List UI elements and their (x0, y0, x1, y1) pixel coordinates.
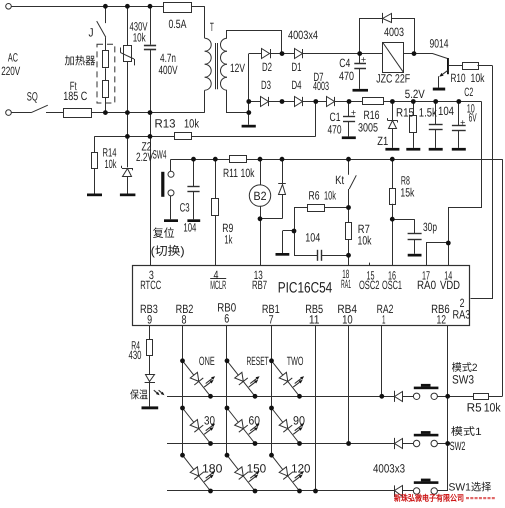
svg-text:6: 6 (224, 311, 229, 325)
svg-text:10k: 10k (484, 401, 502, 415)
svg-text:2.2V: 2.2V (136, 150, 153, 164)
svg-text:10k: 10k (184, 116, 200, 130)
svg-text:104: 104 (305, 230, 320, 244)
svg-text:SW4: SW4 (153, 148, 167, 162)
svg-text:185 C: 185 C (63, 89, 87, 103)
svg-text:12: 12 (437, 313, 447, 327)
svg-text:C2: C2 (464, 85, 473, 99)
svg-text:加热器: 加热器 (65, 55, 96, 68)
svg-text:新珠弘微电子有限公司: 新珠弘微电子有限公司 (394, 493, 464, 503)
svg-text:复位: 复位 (153, 227, 175, 240)
svg-text:R15: R15 (396, 106, 414, 120)
svg-text:R10: R10 (451, 71, 466, 85)
svg-text:SW3: SW3 (452, 372, 474, 386)
svg-text:D1: D1 (292, 60, 302, 74)
svg-text:10k: 10k (324, 189, 337, 203)
svg-text:104: 104 (438, 104, 454, 118)
svg-text:7: 7 (269, 313, 274, 327)
svg-text:8: 8 (182, 313, 187, 327)
svg-text:B2: B2 (254, 189, 267, 203)
svg-text:120: 120 (291, 461, 311, 475)
svg-text:6V: 6V (469, 111, 477, 125)
svg-text:OSC2: OSC2 (359, 278, 380, 292)
svg-text:11: 11 (309, 313, 320, 327)
svg-text:VDD: VDD (440, 278, 460, 292)
svg-text:5.2V: 5.2V (405, 87, 425, 101)
svg-text:Kt: Kt (335, 173, 345, 187)
svg-text:60: 60 (249, 413, 261, 427)
svg-text:12V: 12V (230, 61, 245, 75)
svg-text:9: 9 (147, 313, 152, 327)
svg-text:10k: 10k (133, 31, 147, 45)
svg-text:4003: 4003 (384, 25, 404, 39)
svg-text:D3: D3 (261, 78, 271, 92)
svg-text:J: J (89, 26, 94, 40)
svg-text:SW2: SW2 (450, 439, 466, 453)
svg-text:470: 470 (328, 123, 342, 137)
svg-text:430: 430 (129, 348, 142, 362)
svg-text:30: 30 (204, 413, 215, 427)
svg-text:104: 104 (183, 221, 196, 235)
svg-text:TWO: TWO (287, 354, 304, 368)
svg-text:ONE: ONE (199, 354, 215, 368)
svg-text:RA0: RA0 (417, 278, 436, 292)
svg-text:+: + (460, 118, 465, 128)
svg-text:0.5A: 0.5A (169, 17, 187, 31)
svg-text:R13: R13 (155, 116, 176, 130)
svg-text:OSC1: OSC1 (382, 278, 402, 292)
svg-text:PIC16C54: PIC16C54 (278, 280, 333, 297)
svg-text:1k: 1k (224, 232, 233, 246)
svg-text:模式1: 模式1 (451, 426, 482, 438)
svg-text:RTCC: RTCC (140, 278, 161, 292)
svg-text:10k: 10k (241, 166, 256, 180)
svg-text:RA3: RA3 (453, 308, 471, 322)
svg-text:90: 90 (293, 413, 305, 427)
svg-text:400V: 400V (159, 63, 178, 77)
svg-text:+: + (351, 107, 356, 117)
svg-text:RB7: RB7 (252, 278, 267, 292)
svg-text:保温: 保温 (130, 388, 148, 401)
svg-text:470: 470 (339, 69, 354, 83)
svg-text:MCLR: MCLR (210, 278, 226, 292)
svg-text:Z1: Z1 (377, 134, 388, 148)
svg-text:SQ: SQ (27, 90, 38, 104)
svg-text:4003x3: 4003x3 (373, 461, 405, 475)
svg-text:4003x4: 4003x4 (288, 28, 318, 42)
svg-text:JZC 22F: JZC 22F (376, 72, 410, 86)
svg-text:10k: 10k (358, 234, 373, 248)
svg-text:+: + (361, 55, 366, 65)
svg-text:15k: 15k (400, 186, 415, 200)
svg-text:150: 150 (247, 461, 267, 475)
svg-text:10: 10 (342, 313, 353, 327)
svg-text:180: 180 (202, 461, 223, 475)
svg-text:D4: D4 (292, 78, 302, 92)
svg-text:RA1: RA1 (341, 277, 351, 291)
svg-text:3005: 3005 (358, 121, 378, 135)
svg-text:1: 1 (382, 313, 386, 327)
svg-text:10k: 10k (471, 71, 486, 85)
svg-text:9014: 9014 (430, 37, 449, 51)
svg-text:4003: 4003 (313, 79, 329, 93)
svg-text:C3: C3 (180, 200, 190, 214)
svg-text:D2: D2 (262, 60, 272, 74)
svg-text:R6: R6 (309, 189, 320, 203)
svg-text:AC: AC (8, 51, 18, 65)
svg-text:T: T (210, 20, 214, 34)
svg-text:SW1选择: SW1选择 (449, 482, 492, 494)
svg-text:30p: 30p (423, 220, 437, 234)
svg-text:10k: 10k (105, 157, 118, 171)
svg-text:RESET: RESET (247, 354, 270, 368)
svg-text:(切换): (切换) (151, 244, 185, 258)
svg-text:1.5k: 1.5k (419, 106, 438, 120)
svg-text:220V: 220V (1, 64, 20, 78)
svg-text:R5: R5 (467, 401, 482, 415)
svg-text:R11: R11 (223, 166, 238, 180)
